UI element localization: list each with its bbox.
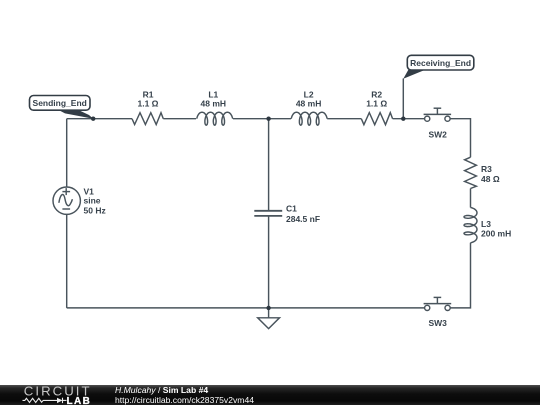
- inductor L3: [464, 208, 477, 243]
- resistor R1: [132, 113, 163, 125]
- node ground dot: [266, 306, 270, 310]
- svg-text:C1: C1: [286, 204, 297, 214]
- flag Sending_End: [30, 96, 94, 119]
- svg-text:SW2: SW2: [428, 130, 447, 140]
- wire R3 to L3: [470, 189, 472, 208]
- svg-text:Sending_End: Sending_End: [33, 98, 87, 108]
- svg-text:48 Ω: 48 Ω: [481, 174, 500, 184]
- wire C1 branch bottom: [268, 216, 270, 308]
- svg-text:200 mH: 200 mH: [481, 228, 511, 238]
- resistor R2: [361, 113, 392, 125]
- switch SW3: [424, 297, 452, 310]
- svg-text:Receiving_End: Receiving_End: [410, 58, 471, 68]
- svg-text:R3: R3: [481, 164, 492, 174]
- node dots: [91, 117, 405, 311]
- svg-text:SW3: SW3: [428, 318, 447, 328]
- wire L2 to R2: [327, 118, 361, 120]
- resistor R3: [465, 157, 477, 188]
- capacitor C1: [254, 211, 282, 216]
- svg-text:50 Hz: 50 Hz: [84, 205, 106, 215]
- flag Receiving_End: [403, 55, 474, 78]
- switch SW2: [424, 108, 452, 121]
- wire R2 to SW2: [393, 118, 425, 120]
- svg-text:sine: sine: [84, 195, 101, 205]
- wire R1 to L1: [163, 118, 196, 120]
- svg-text:L3: L3: [481, 219, 491, 229]
- svg-text:1.1 Ω: 1.1 Ω: [138, 98, 159, 108]
- wire receiving-end stub: [402, 79, 404, 119]
- svg-text:48 mH: 48 mH: [201, 98, 227, 108]
- inductor L1: [197, 112, 233, 125]
- svg-text:LAB: LAB: [67, 396, 92, 405]
- wire C1 branch top: [268, 119, 270, 211]
- footer bar: [0, 385, 540, 405]
- node C1 top dot: [266, 117, 270, 121]
- wire L1 to L2: [233, 118, 291, 120]
- node Receiving_End dot: [401, 117, 405, 121]
- svg-text:1.1 Ω: 1.1 Ω: [366, 98, 387, 108]
- wire top-left horizontal: [67, 118, 132, 120]
- wire left vertical lower: [66, 214, 68, 308]
- wire SW2 to right corner: [450, 119, 470, 158]
- inductor L2: [291, 112, 327, 125]
- ground: [258, 308, 280, 329]
- footer credit text: [115, 385, 254, 405]
- wire bottom: [67, 307, 425, 309]
- svg-text:284.5 nF: 284.5 nF: [286, 214, 320, 224]
- svg-text:48 mH: 48 mH: [296, 98, 322, 108]
- node Sending_End dot: [91, 117, 95, 121]
- wire L3 to bottom corner: [450, 243, 470, 308]
- source V1: [53, 187, 80, 214]
- wire left vertical upper: [66, 119, 68, 187]
- logo CircuitLab: [0, 384, 110, 405]
